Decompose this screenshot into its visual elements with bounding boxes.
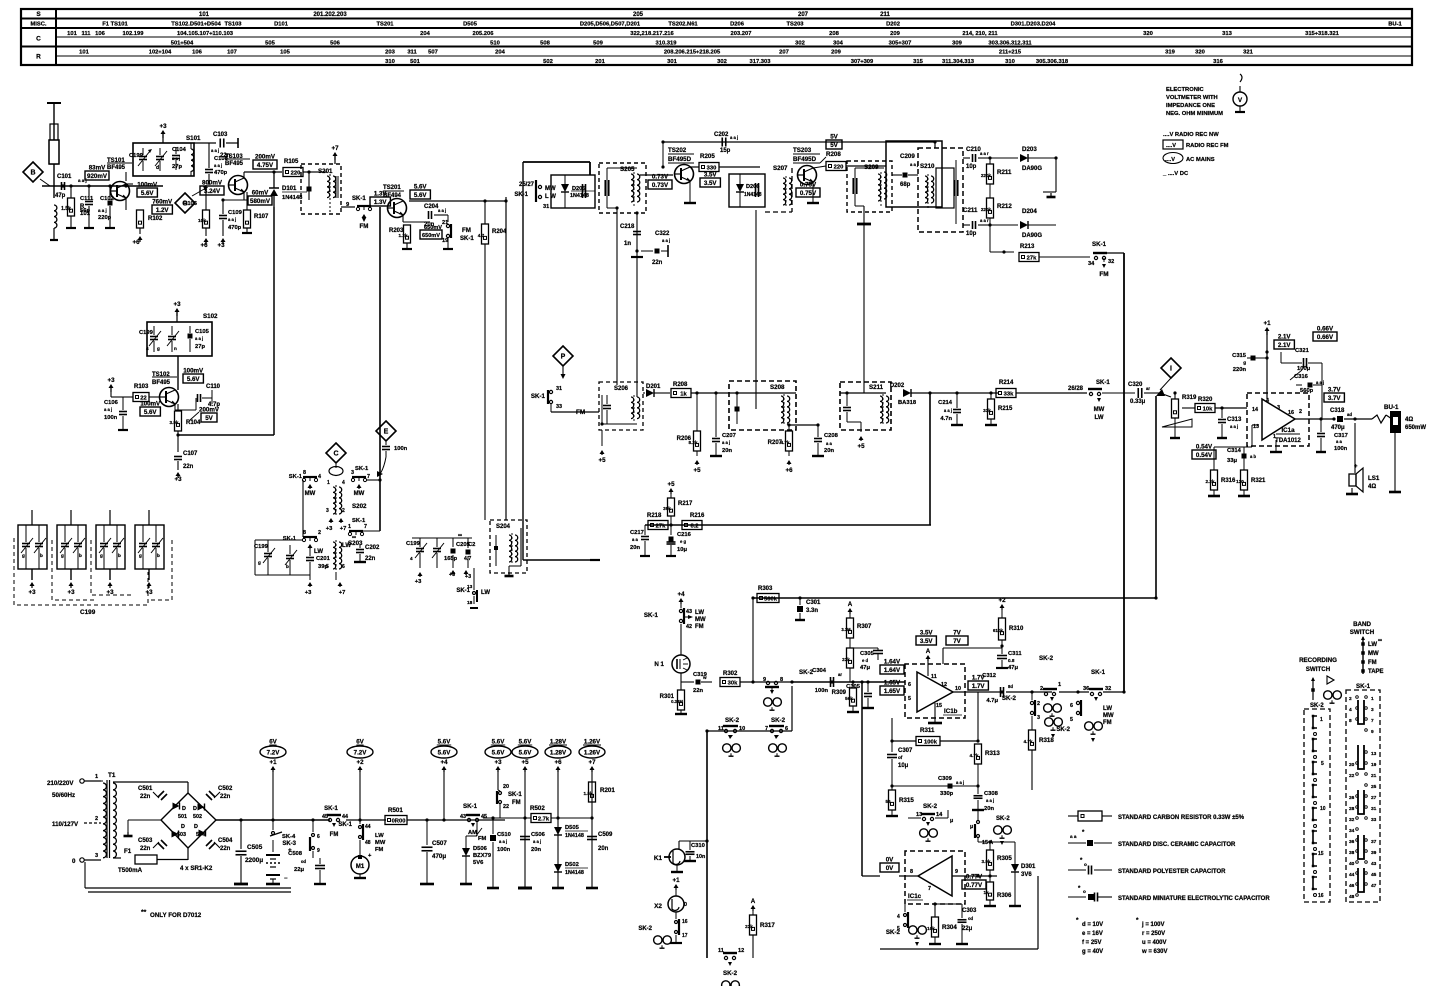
svg-text:4.7: 4.7 [478,233,485,238]
capacitor C508 22u [313,857,320,859]
svg-text:100μ: 100μ [1297,366,1311,372]
svg-text:42: 42 [686,624,692,630]
svg-text:7V: 7V [953,638,961,645]
svg-text:M1: M1 [356,864,365,870]
svg-text:560k: 560k [764,597,778,603]
junction dot (89,186) [87,184,90,187]
junction dot (663,167) [661,165,664,168]
svg-text:SK-2: SK-2 [1056,727,1070,733]
bridge left ground [128,819,161,821]
svg-text:SWITCH: SWITCH [1306,666,1331,673]
trimmer small b [286,555,294,557]
svg-text:S206: S206 [614,386,629,392]
svg-text:56p: 56p [80,208,90,214]
svg-text:33k: 33k [983,408,991,413]
svg-text:ad: ad [1347,412,1352,417]
svg-text:9: 9 [955,869,958,875]
S208 internals [735,407,740,412]
column SK-1 box [1346,690,1380,902]
resistor R321 [1241,470,1248,490]
svg-text:44: 44 [365,824,371,830]
svg-text:R107: R107 [254,214,269,220]
svg-text:+3: +3 [28,589,36,596]
svg-text:305.306.318: 305.306.318 [1036,59,1069,65]
trimmer C199d [416,548,424,550]
wire oscillator feed x380 [379,207,381,531]
S206 internals [603,405,611,407]
svg-text:44: 44 [1349,872,1355,878]
svg-text:C204: C204 [424,204,439,210]
svg-text:470μ: 470μ [432,853,446,860]
svg-text:1: 1 [1320,717,1323,723]
svg-text:305+307: 305+307 [889,41,912,47]
svg-text:R103: R103 [134,384,149,390]
svg-text:a a: a a [632,537,638,542]
svg-text:100n: 100n [104,415,118,421]
wire S101 top to C103 [194,142,216,144]
wire detector to AGC [929,393,931,525]
svg-text:+3: +3 [145,589,153,596]
svg-text:10μ: 10μ [898,763,909,769]
svg-text:+7: +7 [339,590,346,596]
svg-text:+3: +3 [465,574,471,580]
svg-text:10: 10 [955,686,961,692]
svg-text:a a j: a a j [986,798,994,803]
svg-text:7: 7 [367,474,370,480]
svg-text:2: 2 [1037,701,1040,707]
wire R311 feedback [904,692,906,718]
svg-text:R301: R301 [660,694,675,700]
svg-text:C: C [333,450,338,457]
svg-text:3: 3 [351,470,354,476]
svg-text:8d: 8d [1008,684,1013,689]
junction dot (853,682) [851,680,854,683]
svg-text:3.9k: 3.9k [170,420,179,425]
svg-text:316: 316 [1213,59,1223,65]
svg-text:C101: C101 [57,174,72,180]
svg-text:3.9k: 3.9k [982,859,991,864]
wire SK2 14 to u [935,817,948,819]
svg-text:33μ: 33μ [1227,458,1237,464]
svg-text:2.7k: 2.7k [538,817,550,823]
svg-text:SK-1: SK-1 [644,612,659,619]
svg-text:BF495D: BF495D [793,156,817,163]
svg-text:R207: R207 [768,440,783,446]
wire S201 secondary out [341,206,355,208]
svg-text:+6: +6 [785,467,793,474]
capacitor C207 20n [715,393,717,437]
svg-text:d: d [156,165,159,171]
svg-text:LW: LW [1368,642,1377,648]
svg-text:R208: R208 [673,382,688,388]
svg-text:106: 106 [192,50,202,56]
volume wiper [1162,419,1192,427]
resistor R106 [205,185,207,210]
svg-text:+1: +1 [269,759,277,766]
svg-text:3V6: 3V6 [1021,872,1032,878]
svg-text:100n: 100n [815,688,829,694]
tuning gang C199 section 3 [96,525,125,569]
svg-text:220: 220 [291,171,301,177]
svg-text:a a j: a a j [228,217,236,222]
svg-text:310: 310 [1005,59,1015,65]
svg-text:22μ: 22μ [294,867,304,873]
svg-text:R218: R218 [647,513,662,519]
power rail [216,819,330,821]
svg-text:a a j: a a j [172,156,180,161]
svg-text:3.3n: 3.3n [806,608,818,614]
svg-text:C305: C305 [846,684,861,690]
svg-text:920mV: 920mV [87,173,108,180]
capacitor C102 220p [109,186,111,200]
svg-text:5.6V: 5.6V [492,739,506,746]
svg-text:47μ: 47μ [860,665,870,671]
jack break symbol [1372,415,1386,423]
resistor R101 1.5k [70,186,72,198]
svg-text:D204: D204 [1022,208,1037,215]
svg-text:MW: MW [375,840,386,846]
svg-text:317.303: 317.303 [750,59,772,65]
T1 core [106,780,108,858]
svg-text:C509: C509 [598,832,613,838]
svg-text:4.75V: 4.75V [257,162,274,169]
svg-text:8.2: 8.2 [690,524,698,530]
antenna coil L1 [54,205,57,228]
wire IC1a out [1295,418,1334,420]
svg-text:1.64V: 1.64V [884,667,901,674]
svg-text:S211: S211 [869,384,884,391]
svg-text:1.2V: 1.2V [156,207,170,214]
junction dot (506,201) [504,199,507,202]
svg-text:68p: 68p [900,182,911,188]
jack pairs SK-2 record [1045,718,1053,726]
svg-text:S204: S204 [496,524,511,530]
measure 650mV [420,230,442,239]
svg-text:SK-2: SK-2 [771,717,786,724]
svg-text:a b: a b [1250,454,1256,459]
svg-text:a a: a a [826,441,832,446]
svg-text:LW: LW [342,543,351,549]
svg-text:b: b [40,553,43,558]
junction dot (126,186) [124,184,127,187]
svg-text:4.7μ: 4.7μ [986,698,998,704]
capacitor C301 3.3n [799,598,801,605]
svg-text:+7: +7 [588,759,596,766]
svg-text:12: 12 [941,682,947,688]
svg-text:13: 13 [1371,751,1377,757]
ratio det right wires [1055,158,1057,192]
T1 wiring [101,780,103,782]
svg-text:C199: C199 [254,544,269,550]
svg-text:R203: R203 [389,228,404,234]
svg-text:a a j: a a j [910,162,918,167]
svg-text:4Ω: 4Ω [1368,484,1376,490]
svg-text:26: 26 [1349,795,1355,801]
capacitor C216 10u [670,525,672,535]
S206 +5 feed [601,430,603,446]
wire record row [707,730,792,732]
svg-text:22μ: 22μ [962,926,973,932]
svg-text:650mV: 650mV [422,233,440,239]
svg-text:9: 9 [1371,729,1374,735]
svg-text:105: 105 [280,50,290,56]
wire T1 sec bottom [113,857,121,859]
table row divider [21,46,1412,48]
svg-text:307÷309: 307÷309 [851,59,874,65]
junction dot (930,393) [928,391,931,394]
wire I diamond [1161,358,1181,378]
resistor R315b [889,790,896,810]
S201 core [335,176,337,198]
svg-text:48: 48 [1349,894,1355,900]
svg-text:C321: C321 [1295,348,1310,354]
capacitor C103 22n [219,139,221,148]
svg-text:321: 321 [1243,50,1253,56]
svg-text:209: 209 [831,50,841,56]
svg-text:C307: C307 [898,748,913,754]
S208 secondary out [787,424,789,425]
svg-text:g: g [139,553,142,558]
svg-text:C308: C308 [984,791,999,797]
svg-text:322,218.217.216: 322,218.217.216 [630,31,674,37]
wire preamp input row [792,681,905,683]
svg-text:4: 4 [410,556,413,561]
svg-text:S101: S101 [186,135,201,142]
svg-text:1N4148: 1N4148 [282,195,303,201]
svg-text:R321: R321 [1251,478,1266,484]
svg-text:101: 101 [67,31,77,37]
junction dot (1032,692) [1030,690,1033,693]
svg-text:2.2k: 2.2k [1206,479,1215,484]
svg-text:+3: +3 [415,579,422,585]
diode D502b 1N4148 [554,864,562,872]
IC1a pin1 gnd [1275,440,1277,452]
svg-text:SK-2: SK-2 [1310,703,1324,709]
svg-text:3: 3 [1037,715,1040,721]
IF transformer S204 [490,520,527,573]
svg-text:LW: LW [375,833,384,839]
varactor d [433,548,441,550]
svg-text:+6: +6 [554,759,562,766]
svg-text:C208: C208 [824,433,839,439]
svg-text:20n: 20n [824,448,834,454]
capacitor C110 4.7p [174,404,176,410]
svg-text:21: 21 [442,220,448,226]
wire C309 row [892,785,978,787]
svg-text:a a j: a a j [662,238,670,243]
S211 internals [843,407,851,409]
svg-text:5V: 5V [830,142,838,149]
svg-text:34: 34 [1349,828,1355,834]
svg-text:SK-2: SK-2 [923,803,938,810]
junction dot (1002,646) [1000,644,1003,647]
svg-text:1.5k: 1.5k [584,791,593,796]
svg-text:MW: MW [695,617,706,623]
svg-text:22n: 22n [693,688,703,694]
svg-text:BU-1: BU-1 [1388,22,1402,28]
column SK-1 bars [1358,700,1361,724]
svg-text:10: 10 [1320,806,1326,812]
svg-text:16: 16 [682,919,688,925]
wire TS101 base net [126,183,133,185]
wire BU-1 down [1394,433,1396,492]
resistor R201 [589,782,596,802]
capacitor C510 100n [492,818,494,834]
capacitor C506 20n [520,836,530,838]
svg-text:g = 40V: g = 40V [1082,949,1103,955]
table frame [21,9,1412,65]
svg-text:FM: FM [512,800,521,806]
svg-text:+4: +4 [440,759,448,766]
svg-text:S: S [36,11,41,18]
svg-text:FM: FM [375,847,384,853]
junction dot (223,200) [221,198,224,201]
svg-text:31: 31 [1371,806,1377,812]
capacitor C308 20n [977,786,979,794]
svg-text:165p: 165p [444,556,458,562]
svg-text:9: 9 [317,848,320,854]
svg-text:2: 2 [1299,409,1302,415]
junction dot (990,842) [988,840,991,843]
svg-text:4: 4 [318,474,321,480]
svg-text:20n: 20n [984,806,994,812]
svg-text:w: w [702,675,707,680]
svg-text:504: 504 [196,832,205,838]
junction dot (1056,158) [1054,156,1057,159]
wire IC1b out [953,691,1000,693]
svg-text:3: 3 [326,508,329,514]
svg-text:S205: S205 [620,166,635,173]
node G diamond [175,193,195,213]
svg-text:0R00: 0R00 [392,819,406,825]
svg-text:TS201: TS201 [383,185,401,191]
IF transformer S209 [847,161,892,212]
ratio det top wire [934,142,936,148]
svg-text:+7: +7 [340,526,347,532]
svg-text:20: 20 [1349,762,1355,768]
S101 +3 feed [162,132,164,138]
junction dot (832,682) [830,680,833,683]
junction dot (892,741) [890,739,893,742]
resistor R316 [1211,470,1218,490]
svg-text:od: od [968,916,974,921]
svg-text:220k: 220k [981,207,992,212]
wire IC1b-IC1c link [861,682,863,876]
svg-text:1.28V: 1.28V [550,739,567,746]
SK-1 band labels [1094,697,1098,701]
svg-text:+3: +3 [174,476,182,483]
svg-text:D206: D206 [730,22,745,28]
S204 internals [494,546,498,550]
wire IF in [523,161,590,163]
svg-text:26/28: 26/28 [1068,386,1084,392]
svg-text:310.319: 310.319 [656,41,678,47]
svg-text:LW: LW [314,549,323,555]
tuning gang C199 section 2 [57,525,86,569]
wire R105 to S201 [311,171,327,173]
junction dot (1004,252) [1002,250,1005,253]
svg-text:TS202: TS202 [668,147,687,154]
svg-text:DA90G: DA90G [1022,233,1042,239]
resistor R305 [989,842,991,850]
junction dot (1078,692) [1076,690,1079,693]
volume pot R319 [1174,393,1176,399]
svg-text:SK-2: SK-2 [638,926,652,932]
svg-text:8: 8 [303,530,306,536]
trimmer C199b [150,336,158,338]
svg-text:SK-1: SK-1 [355,466,369,472]
svg-text:a a r: a a r [980,218,989,223]
table row divider [21,18,1412,20]
svg-text:8: 8 [780,677,783,683]
svg-text:5: 5 [326,564,329,570]
wire antenna input [42,185,163,187]
junction dot (892,786) [890,784,893,787]
svg-text:T1: T1 [108,772,116,779]
svg-text:27k: 27k [656,524,666,530]
svg-text:22: 22 [503,804,509,810]
svg-text:RECORDING: RECORDING [1299,657,1337,664]
svg-text:R502: R502 [530,805,545,812]
svg-text:S102: S102 [203,313,218,320]
diode D205 1N4148 [561,184,569,192]
svg-text:FM: FM [462,227,471,234]
svg-text:560p: 560p [1300,388,1314,394]
svg-text:**: ** [1378,639,1382,645]
svg-text:C504: C504 [218,838,233,844]
svg-text:of: of [898,755,903,760]
svg-text:1N4148: 1N4148 [565,833,584,839]
svg-text:C104: C104 [172,147,187,153]
IC1b pin11 feed [927,657,929,661]
junction dot (847,393) [845,391,848,394]
IC1a dashed box [1247,393,1309,446]
svg-text:+3: +3 [494,759,502,766]
svg-text:R213: R213 [1020,244,1035,250]
wire R104 to x273 [178,434,274,436]
svg-text:a a: a a [1070,834,1077,839]
svg-text:C199: C199 [139,330,154,336]
junction dot (63,186) [61,184,64,187]
svg-text:R211: R211 [997,169,1012,176]
svg-text:220: 220 [834,165,844,171]
junction dot (707,841) [705,839,708,842]
capacitor C111 56p [88,186,90,200]
svg-text:650mV: 650mV [424,225,442,231]
bottom return bus [84,862,86,888]
capacitor C313 [1221,408,1223,418]
svg-text:R311: R311 [920,727,935,734]
svg-text:311.304.313: 311.304.313 [942,59,975,65]
svg-text:**: ** [352,536,356,542]
svg-text:7.2V: 7.2V [354,749,368,756]
resistor R215b [990,393,992,399]
svg-text:T500mA: T500mA [118,867,143,874]
svg-text:303.306.312.311: 303.306.312.311 [988,41,1032,47]
svg-text:+5: +5 [857,443,865,450]
svg-text:FM: FM [695,624,704,630]
wire rail2 [346,819,386,821]
svg-text:a a j: a a j [944,408,952,413]
junction dot (274,172) [272,170,275,173]
svg-text:31: 31 [543,204,549,210]
svg-text:+3: +3 [326,526,333,532]
node P diamond [553,346,573,366]
svg-text:8: 8 [910,869,913,875]
svg-text:C199: C199 [80,609,96,616]
svg-text:22n: 22n [140,846,151,852]
diode D206 1N4148 [736,184,744,192]
